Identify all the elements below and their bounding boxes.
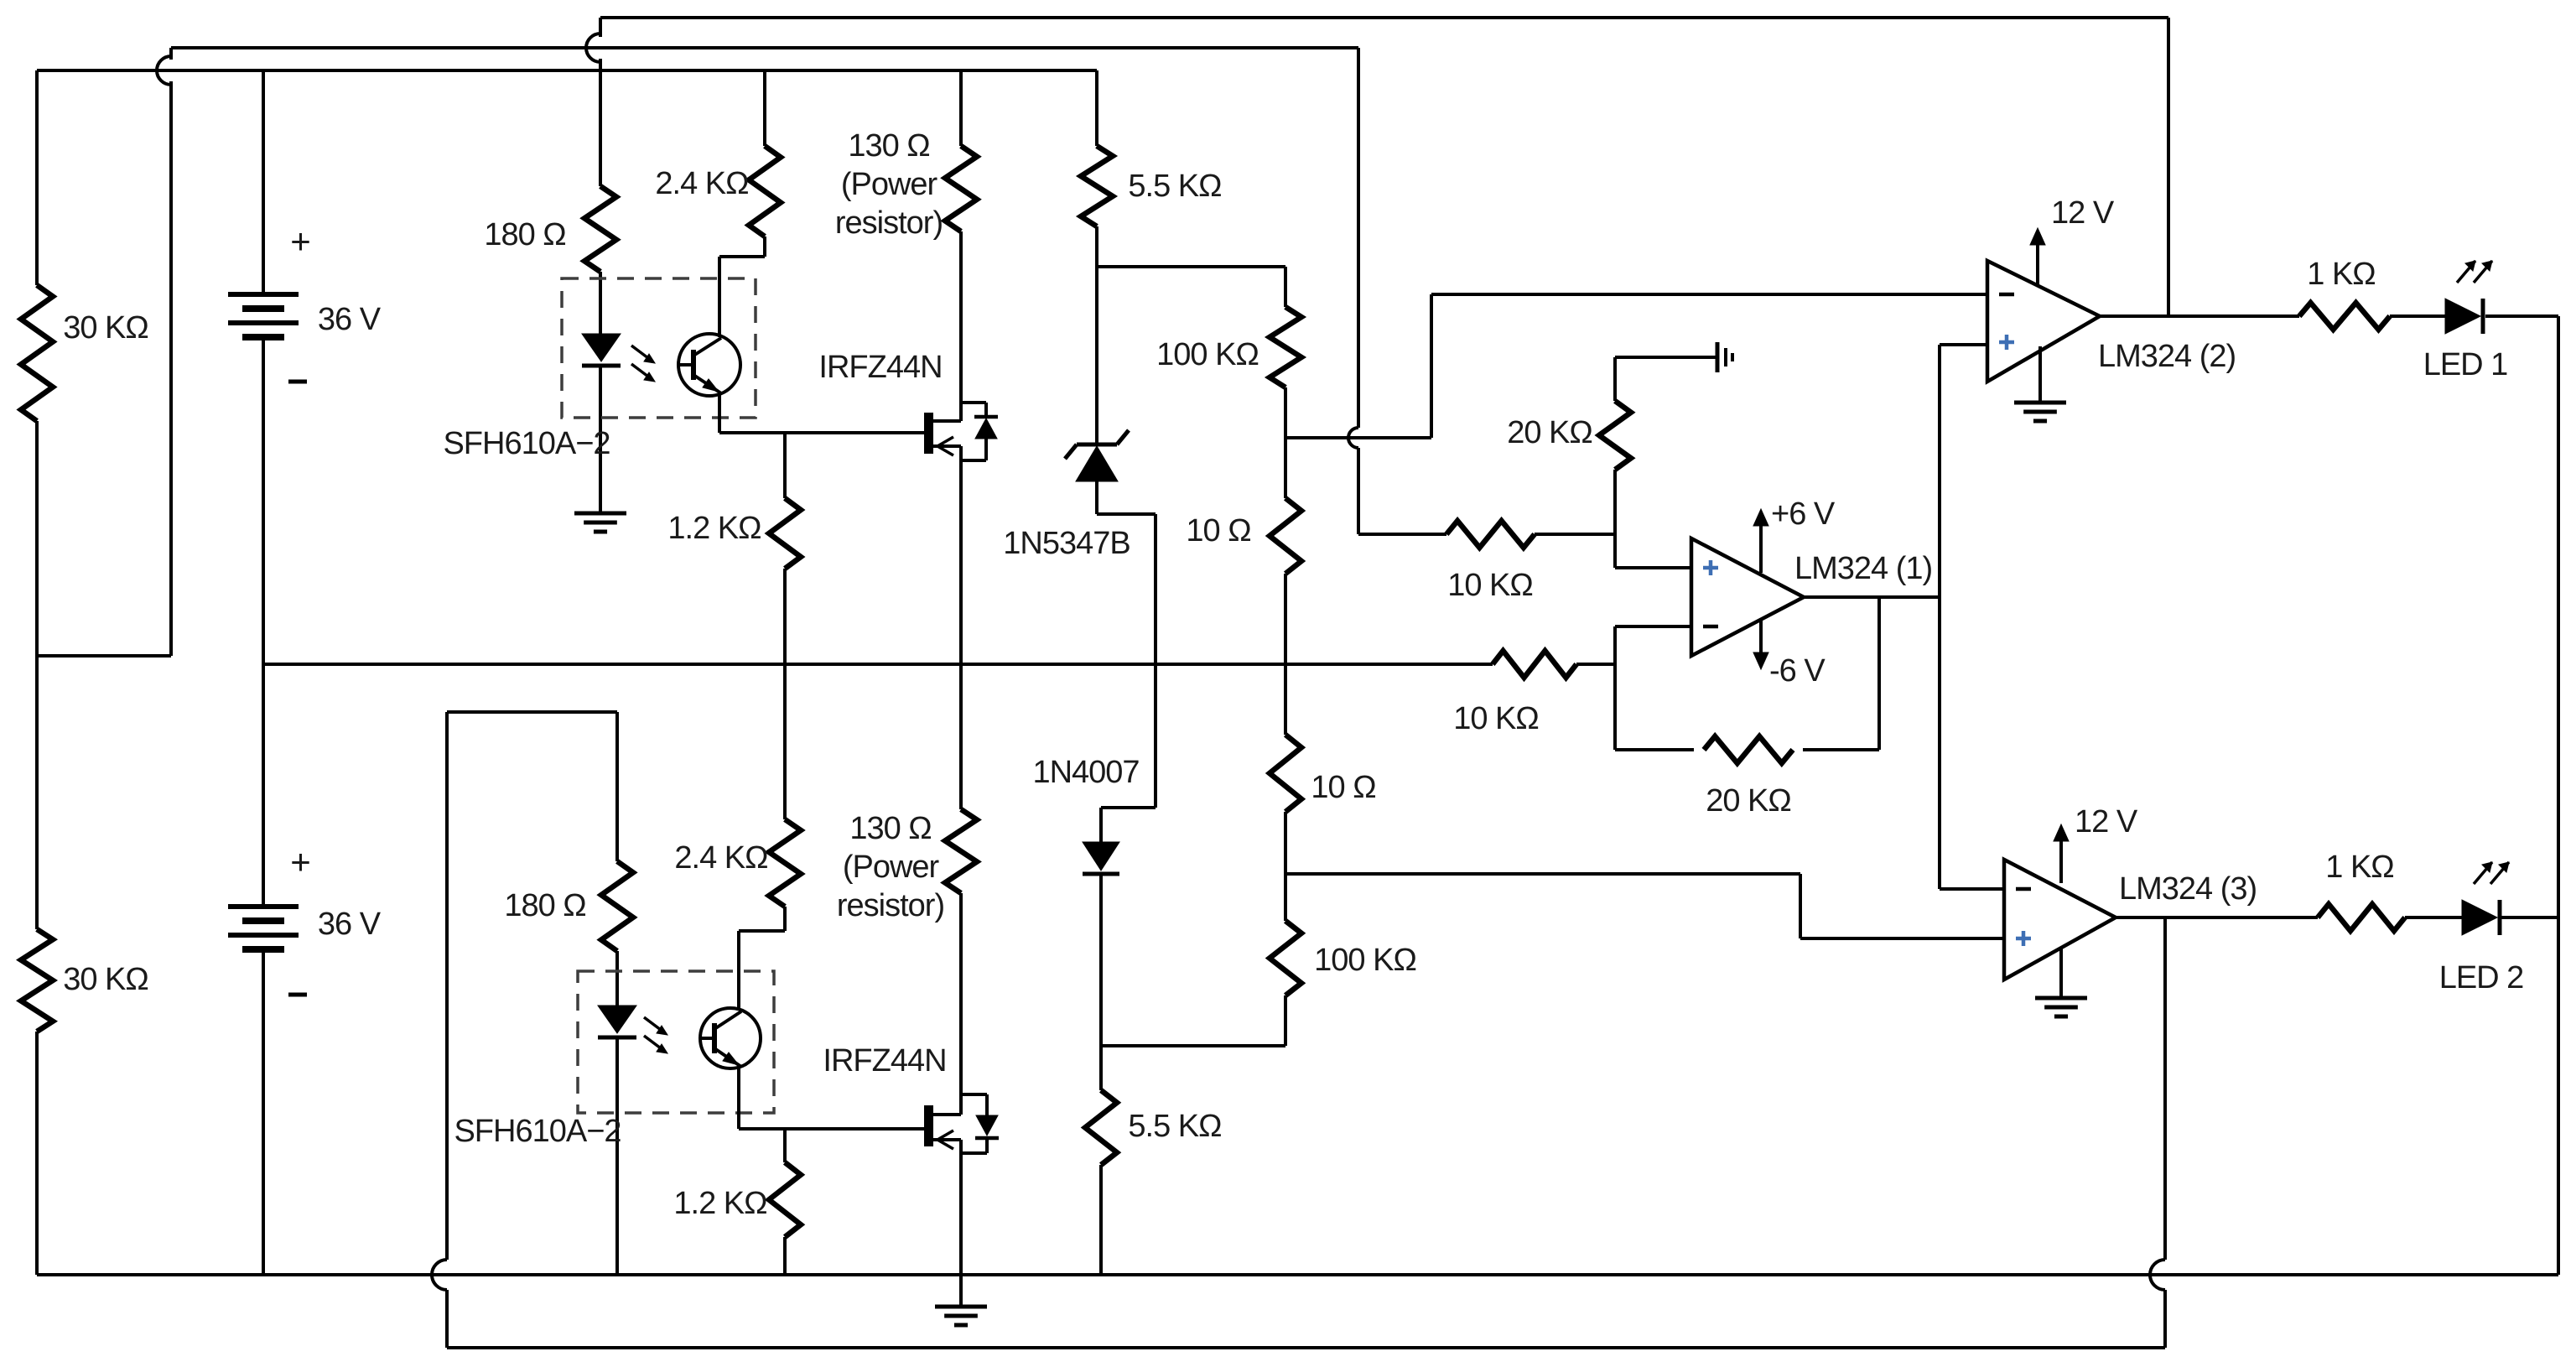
svg-text:30 KΩ: 30 KΩ — [63, 962, 148, 997]
svg-text:10 Ω: 10 Ω — [1311, 770, 1375, 805]
svg-text:(Power: (Power — [841, 167, 938, 202]
svg-text:12 V: 12 V — [2075, 804, 2138, 839]
svg-text:resistor): resistor) — [835, 205, 943, 241]
svg-text:-6 V: -6 V — [1769, 653, 1826, 689]
svg-text:10 Ω: 10 Ω — [1186, 513, 1250, 548]
svg-text:100 KΩ: 100 KΩ — [1156, 337, 1259, 372]
svg-text:2.4 KΩ: 2.4 KΩ — [674, 840, 767, 876]
svg-text:LED 2: LED 2 — [2439, 960, 2524, 995]
svg-text:(Power: (Power — [843, 850, 940, 885]
svg-text:IRFZ44N: IRFZ44N — [823, 1043, 946, 1079]
svg-text:+: + — [290, 842, 310, 881]
svg-text:resistor): resistor) — [837, 888, 944, 923]
svg-text:1N4007: 1N4007 — [1032, 755, 1139, 790]
svg-text:100 KΩ: 100 KΩ — [1314, 943, 1416, 978]
svg-text:+6 V: +6 V — [1771, 496, 1836, 532]
svg-text:IRFZ44N: IRFZ44N — [818, 350, 942, 385]
svg-text:LM324 (2): LM324 (2) — [2098, 339, 2236, 374]
svg-text:1 KΩ: 1 KΩ — [2325, 850, 2393, 885]
svg-text:SFH610A−2: SFH610A−2 — [454, 1114, 621, 1149]
svg-text:10 KΩ: 10 KΩ — [1453, 701, 1539, 736]
svg-text:12 V: 12 V — [2051, 195, 2115, 231]
svg-text:LED 1: LED 1 — [2423, 347, 2508, 382]
svg-text:LM324 (1): LM324 (1) — [1794, 551, 1932, 586]
svg-text:36 V: 36 V — [318, 302, 382, 337]
svg-text:10 KΩ: 10 KΩ — [1447, 568, 1533, 603]
svg-text:LM324 (3): LM324 (3) — [2119, 871, 2257, 907]
svg-text:1 KΩ: 1 KΩ — [2307, 257, 2375, 292]
svg-text:20 KΩ: 20 KΩ — [1507, 415, 1592, 450]
svg-text:130 Ω: 130 Ω — [848, 128, 929, 164]
svg-text:30 KΩ: 30 KΩ — [63, 310, 148, 346]
svg-text:+: + — [290, 221, 310, 261]
svg-text:2.4 KΩ: 2.4 KΩ — [655, 166, 748, 201]
svg-text:180 Ω: 180 Ω — [484, 217, 565, 252]
svg-text:36 V: 36 V — [318, 907, 382, 942]
svg-text:5.5 KΩ: 5.5 KΩ — [1128, 169, 1221, 204]
svg-text:20 KΩ: 20 KΩ — [1706, 783, 1791, 819]
svg-text:SFH610A−2: SFH610A−2 — [443, 426, 610, 461]
svg-text:1.2 KΩ: 1.2 KΩ — [667, 511, 761, 546]
svg-text:1N5347B: 1N5347B — [1003, 526, 1130, 561]
svg-text:5.5 KΩ: 5.5 KΩ — [1128, 1109, 1221, 1144]
svg-text:1.2 KΩ: 1.2 KΩ — [673, 1186, 766, 1221]
svg-text:180 Ω: 180 Ω — [504, 888, 585, 923]
svg-text:130 Ω: 130 Ω — [849, 811, 931, 846]
